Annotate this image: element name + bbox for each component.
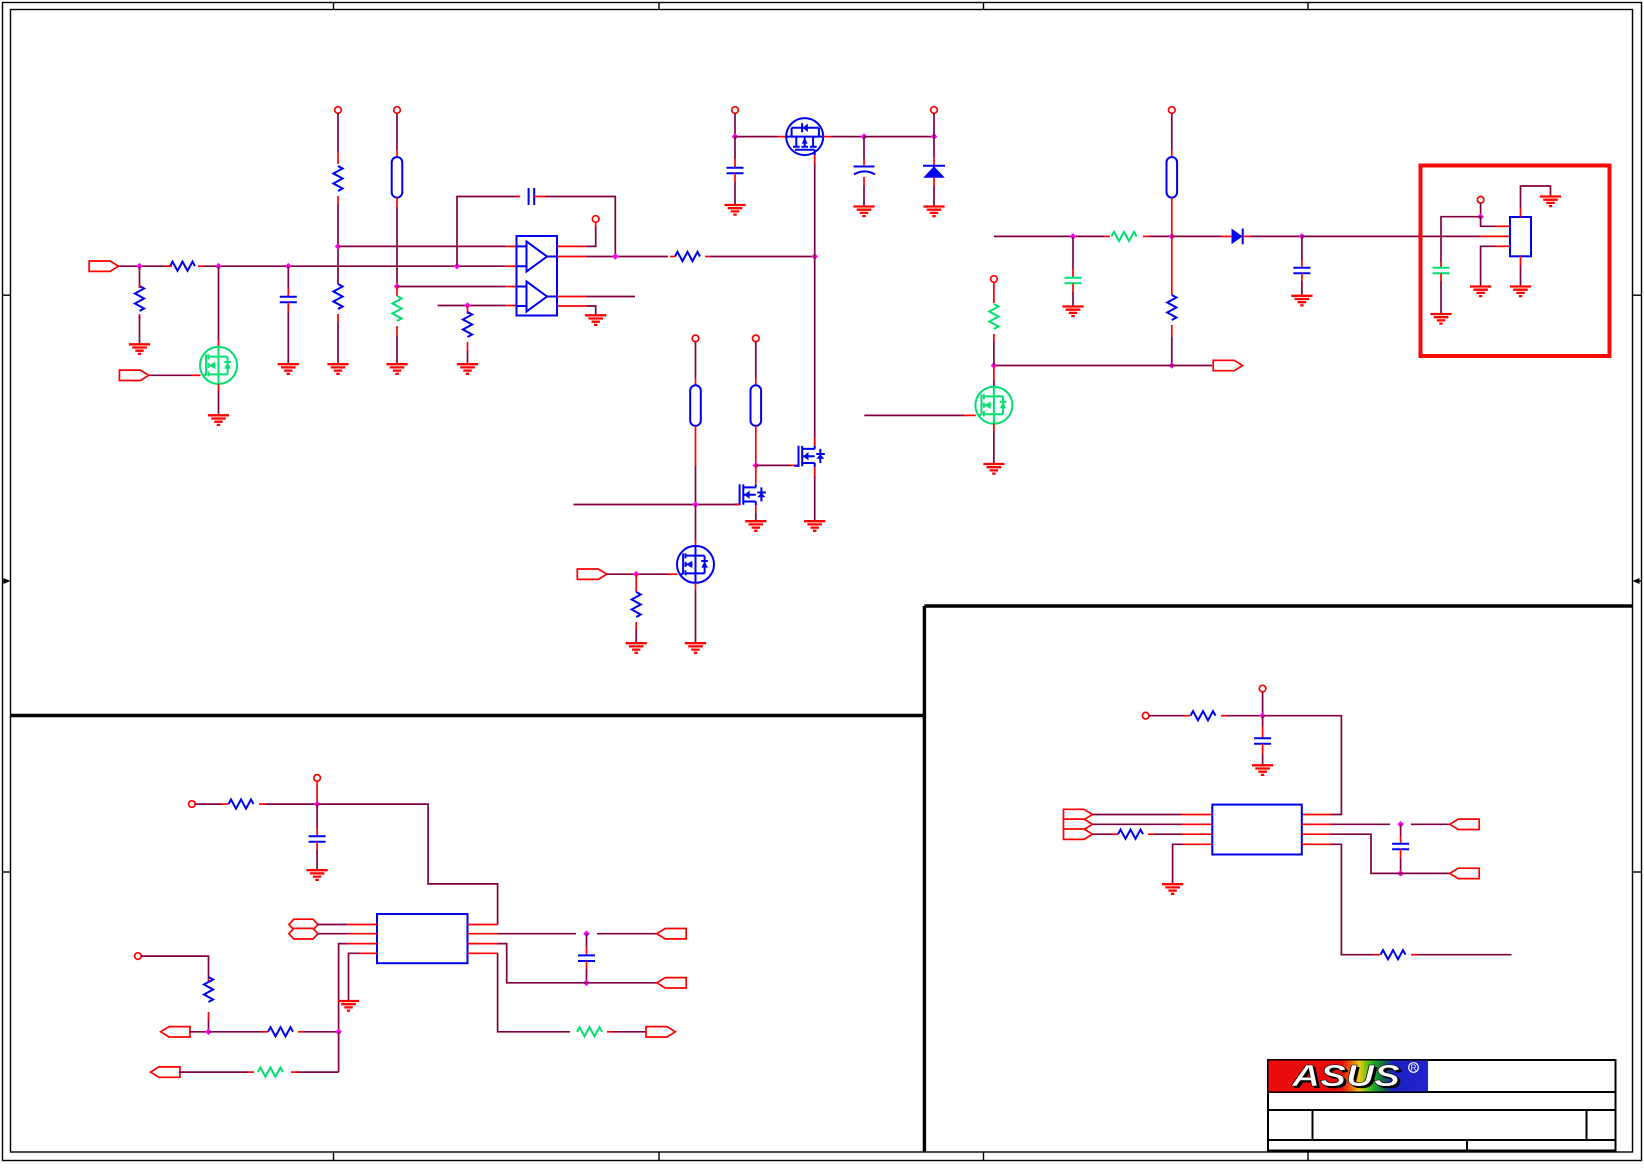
resistor R5 green [392, 296, 401, 321]
wire R2 to ground [139, 316, 141, 344]
wire B2 to U4 pin2 [1092, 823, 1182, 825]
wire T6 to L2 [695, 342, 697, 386]
inductor L2 [690, 385, 701, 426]
terminal T8 [1169, 107, 1176, 114]
IC U3 pin stubs [347, 925, 498, 954]
border centre arrow left [3, 578, 11, 584]
wire N21 to Q6 drain [993, 366, 995, 387]
transistor Q6 [975, 387, 1012, 424]
resistor R14 [204, 977, 213, 1002]
node N20 junction [1169, 362, 1176, 369]
resistor R7 [670, 252, 710, 261]
terminal T11 [189, 801, 196, 808]
wire B1 to U4 pin1 [1092, 814, 1182, 816]
wire R16 to N26 leg [291, 1071, 339, 1073]
ground G17 [1540, 197, 1561, 207]
resistor R19 [1381, 950, 1406, 959]
wire U4 pin8 red stub [1302, 814, 1331, 816]
node N17 junction [1070, 233, 1077, 240]
terminal T13 [135, 953, 142, 960]
resistor R9 green [1104, 232, 1150, 241]
wire N26 down to R16 row [338, 1032, 340, 1072]
wire U3 pin6 to N25 [498, 944, 576, 983]
node N25 junction [583, 980, 590, 987]
ground G3 [278, 364, 299, 374]
wire N6 to U1 pin5 [397, 286, 517, 288]
wire main input net [204, 265, 505, 267]
wire L2 to N13 [695, 426, 697, 505]
wire N3 to C1 [287, 266, 289, 296]
node N28 junction [1259, 712, 1266, 719]
wire R9 to N18 [1150, 235, 1172, 237]
port B3 pentagon [1064, 829, 1093, 839]
wire Q4 gate red stub [736, 504, 739, 506]
diode D2 [923, 166, 945, 178]
IC U3 [377, 914, 468, 963]
transistor Q1 [200, 347, 237, 384]
block divider bottom-left top edge [11, 714, 925, 717]
capacitor C8 [309, 836, 326, 842]
node N2 junction [215, 263, 222, 270]
resistor R15 [268, 1027, 293, 1036]
wire R7 to gate net [710, 256, 815, 258]
diode D1 [1232, 229, 1243, 245]
wire net to Q3 drain [814, 257, 816, 446]
port B2 pentagon [1064, 819, 1093, 829]
terminal T15 [1142, 712, 1149, 719]
wire L3 to N14 [755, 426, 757, 466]
wire N30 to OUT6 [1390, 872, 1450, 874]
wire R14 top red stub [208, 978, 210, 983]
terminal T12 [314, 775, 321, 782]
capacitor C4 polarized [854, 167, 876, 175]
wire N19 to U2 [1302, 235, 1510, 237]
capacitor C11 [1392, 844, 1409, 850]
wire N29 to OUT5 [1411, 823, 1450, 825]
wire C10 to ground [1262, 744, 1264, 766]
ground G2 [208, 415, 229, 425]
node N10 junction [732, 133, 739, 140]
ground G4 [327, 364, 348, 374]
capacitor C5 green [1065, 278, 1082, 284]
ground G24 [1252, 765, 1273, 775]
wire N12 to D2 [933, 137, 935, 166]
wire N28 to C10 [1262, 716, 1264, 739]
resistor R2 [135, 284, 144, 319]
highlight box [1421, 166, 1610, 357]
wire N15 down to Q5 [695, 505, 697, 547]
wire B3 to R18 [1092, 833, 1118, 835]
node N1 junction [136, 263, 143, 270]
wire T3 to U1 pin8 [586, 222, 596, 246]
ground G1 [129, 344, 150, 354]
wire U4 pin6 to N30 [1331, 834, 1390, 873]
wire T1 to R3 [337, 113, 339, 164]
wire C3 to ground [734, 173, 736, 205]
border centre arrow right [1633, 578, 1642, 584]
wire N20 to N21 [994, 365, 1172, 367]
terminal T5 [931, 107, 938, 114]
wire Q2 gate down [814, 155, 816, 256]
wire N11 to T5 node [864, 136, 934, 138]
node N4 junction [454, 263, 461, 270]
wire IN2 to Q1 gate [149, 374, 201, 376]
node N3 junction [285, 263, 292, 270]
port OUT1 [1213, 360, 1242, 370]
terminal T3 [592, 216, 599, 223]
wire L4 to N18 [1171, 198, 1173, 237]
port B1 pentagon [1064, 809, 1093, 819]
wire N11 to C4 [863, 137, 865, 168]
capacitor C10 [1254, 738, 1271, 744]
wire U1 output to R7 [586, 256, 668, 258]
ground G5 [386, 364, 407, 374]
terminal T14 [1259, 685, 1266, 692]
wire D2 to ground [933, 178, 935, 207]
wire T8 to L4 [1171, 113, 1173, 157]
node N26 junction [335, 1029, 342, 1036]
block divider bottom-right top edge [924, 604, 1632, 607]
wire IN5 to R16 [179, 1071, 254, 1073]
wire R19 left red stub [1374, 954, 1380, 956]
ground G8 [724, 205, 745, 215]
wire T12 to N23 [316, 781, 318, 804]
wire R15 to N26 [298, 1031, 339, 1033]
inductor L3 [751, 385, 762, 426]
wire main net red stub at U1 [505, 265, 517, 267]
wire T2 to L1 [396, 113, 398, 157]
wire stub to U1 pin6 [438, 305, 517, 307]
terminal T9 [991, 276, 998, 283]
capacitor C7 [1293, 268, 1310, 274]
ground G7 [585, 315, 606, 325]
wire C6 to ground [1440, 273, 1442, 314]
wire U3 pin7 to N24 [498, 933, 576, 935]
wire N6 to R5 [396, 287, 398, 297]
ground G16 [983, 464, 1004, 474]
capacitor C9 [578, 955, 595, 961]
capacitor C1 [280, 297, 297, 303]
wire A2 to U3 [318, 933, 347, 935]
IC U4 [1212, 805, 1302, 855]
node N11 junction [861, 133, 868, 140]
wire R14 to N27 [208, 1012, 210, 1032]
port A2 hexagon [289, 928, 318, 939]
port IN4 [161, 1027, 190, 1037]
wire U3 pin4 to ground [349, 953, 361, 1001]
node N9 junction [811, 253, 818, 260]
wire R17 to N28 [1221, 715, 1263, 717]
capacitor C6 green [1433, 268, 1450, 274]
wire N10 to C3 [734, 137, 736, 168]
node N19 junction [1299, 233, 1306, 240]
node N16 junction [633, 571, 640, 578]
wire T9 to R11 [993, 282, 995, 303]
wire R12 to N23 [259, 803, 317, 805]
wire Q3 drain red stub [814, 438, 816, 446]
inductor L4 [1167, 157, 1178, 198]
node N14 junction [753, 462, 760, 469]
wire N17 to C5 [1072, 236, 1074, 277]
inductor L1 [392, 157, 403, 198]
wire N20 to OUT1 [1172, 365, 1212, 367]
ground G10 [923, 207, 944, 217]
terminal T7 [753, 335, 760, 342]
wire N7 to R6 [467, 306, 469, 315]
transistor Q4 [735, 484, 766, 505]
wire N22 to C6 branch [1441, 217, 1481, 262]
wire N16 to R8 [635, 574, 637, 592]
IC U2 [1510, 217, 1531, 256]
wire Q5 source to ground [695, 583, 697, 643]
ground G25 [1162, 884, 1183, 894]
wire R5 to ground [396, 326, 398, 364]
wire U2 top pin to ground [1521, 186, 1551, 217]
node N5 junction [335, 243, 342, 250]
wire T11 to R12 [195, 803, 228, 805]
wire N22 to U2 pin1 [1481, 217, 1510, 227]
wire net VOUT horizontal [994, 235, 1104, 237]
wire Q6 source to ground [993, 424, 995, 464]
wire U4 pin1 red stub [1182, 814, 1212, 816]
node N30 junction [1397, 870, 1404, 877]
wire N5 to U1 pin3 [338, 245, 517, 247]
svg-text:ASUS: ASUS [1291, 1058, 1401, 1093]
wire R10 to N20 [1171, 325, 1173, 366]
ground G22 [307, 870, 328, 880]
wire T7 to L3 [755, 342, 757, 386]
wire Q6 gate net [864, 414, 976, 416]
wire N14 to Q3 gate [756, 464, 799, 466]
wire IN3 to Q5 gate [607, 573, 678, 575]
wire T13 to R14 [141, 956, 208, 978]
wire Q2 to N11 [823, 136, 864, 138]
wire N2 to Q1 drain [218, 266, 220, 346]
wire U4 pin4 to ground [1173, 844, 1183, 884]
ground G20 [1510, 287, 1531, 297]
transistor Q5 [677, 546, 714, 583]
resistor R1 [166, 262, 204, 271]
port OUT3 [657, 978, 686, 988]
wire R18 to U4 pin3 [1148, 833, 1182, 835]
wire T4 down to N10 [734, 113, 736, 136]
port OUT2 [657, 929, 686, 939]
wire C7 to ground [1301, 273, 1303, 296]
wire R11 to N21 [993, 334, 995, 366]
resistor R11 green [989, 304, 998, 329]
wire N23 to U3 pin8 [317, 804, 498, 924]
port IN1 [89, 261, 118, 271]
wire U3 pin5 to R13 [498, 953, 570, 1032]
terminal T2 [394, 107, 401, 114]
terminal T10 [1477, 197, 1484, 204]
resistor R4 [333, 284, 342, 309]
resistor R18 [1118, 830, 1143, 839]
wire feedback right leg [534, 197, 615, 257]
resistor R16 green [258, 1068, 283, 1077]
capacitor C3 [727, 168, 744, 174]
wire U4 pin5 to R19 [1331, 844, 1374, 954]
wire Q3 source to ground [814, 467, 816, 521]
wire C5 to ground [1072, 283, 1074, 306]
ground G9 [853, 207, 874, 217]
svg-text:R: R [1411, 1064, 1417, 1073]
resistor R6 [463, 312, 472, 337]
transistor Q2 [786, 118, 823, 155]
node N22 junction [1477, 213, 1484, 220]
node N29 junction [1397, 821, 1404, 828]
wire R4 to ground [337, 314, 339, 364]
capacitor C2 [529, 188, 535, 205]
wire D1 to N19 [1243, 235, 1302, 237]
resistor R10 [1167, 295, 1176, 320]
wire U4 pin7 to N29 [1331, 823, 1390, 825]
wire IN1 to R1 [119, 265, 171, 267]
wire R13 to OUT4 [607, 1031, 646, 1033]
wire gate net N15 [574, 504, 737, 506]
node N15 junction [692, 501, 699, 508]
wire N18 to D1 [1172, 235, 1232, 237]
wire T5 down [933, 113, 935, 136]
wire N14 to Q4 drain [755, 465, 757, 484]
wire L1 down to N6 [396, 198, 398, 287]
wire T10 to N22 [1480, 203, 1482, 217]
wire R3 to N5 [337, 196, 339, 284]
ground G6 [457, 364, 478, 374]
wire C9 to N25 [586, 961, 588, 983]
ground G11 [804, 521, 825, 531]
wire U2 pin3 to ground [1481, 246, 1510, 286]
wire U1 gnd pin [586, 306, 596, 315]
ground G21 [1291, 296, 1312, 306]
node N24 junction [583, 930, 590, 937]
wire N24 to C9 [586, 934, 588, 956]
port OUT6 [1450, 868, 1479, 878]
port OUT4 [646, 1027, 675, 1037]
port IN3 [577, 569, 606, 579]
terminal T1 [335, 107, 342, 114]
port OUT5 [1450, 819, 1479, 829]
wire C6 top red stub [1440, 262, 1442, 268]
resistor R12 [229, 800, 254, 809]
title block grid [1268, 1060, 1616, 1151]
wire feedback left leg [457, 197, 520, 267]
wire R19 to open end [1411, 954, 1512, 956]
wire N24 to OUT2 [597, 933, 657, 935]
wire N1 to R2 [139, 266, 141, 288]
wire N10 to Q2 [735, 136, 786, 138]
wire T15 to R17 [1149, 715, 1190, 717]
wire R8 to ground [635, 622, 637, 643]
node N23 junction [314, 801, 321, 808]
wire U2 bottom pin to ground [1520, 256, 1522, 286]
op-amp U1 right pin stubs [557, 246, 586, 306]
wire N23 to C8 [316, 804, 318, 836]
terminal T6 [692, 335, 699, 342]
node N18 junction [1169, 233, 1176, 240]
port IN5 [151, 1067, 180, 1077]
wire N19 to C7 [1301, 236, 1303, 267]
wire Q1 source to ground [218, 384, 220, 415]
resistor R8 [632, 592, 641, 617]
node N21 junction [991, 362, 998, 369]
ground G18 [1430, 314, 1451, 324]
wire C11 to N30 [1400, 849, 1402, 873]
node N8 junction [612, 253, 619, 260]
block divider vertical [923, 606, 926, 1152]
wire U3 pin3 to N26 [339, 944, 347, 1032]
port IN2 [119, 370, 148, 380]
ground G13 [685, 643, 706, 653]
ASUS logo [1269, 1058, 1429, 1095]
node N12 junction [931, 133, 938, 140]
op-amp U1 [517, 236, 558, 316]
wire N27 to R15 [209, 1031, 269, 1033]
wire T14 to N28 [1262, 692, 1264, 716]
ground G19 [1470, 287, 1491, 297]
wire U1 out2 stub [586, 296, 635, 298]
port A1 hexagon [289, 919, 318, 930]
wire C1 to ground [287, 303, 289, 365]
transistor Q3 [794, 446, 825, 467]
wire N25 to OUT3 [576, 982, 657, 984]
wire A1 to U3 [318, 924, 347, 926]
ground G12 [745, 521, 766, 531]
wire C8 to ground [316, 842, 318, 870]
wire IN4 to N27 [189, 1031, 209, 1033]
wire R6 to ground [467, 342, 469, 364]
resistor R13 green [577, 1027, 602, 1036]
node N27 junction [205, 1029, 212, 1036]
resistor R3 [333, 166, 342, 191]
ground G15 [1062, 307, 1083, 317]
wire C2 left red stub [516, 196, 520, 198]
wire Q4 source to ground [755, 505, 757, 521]
resistor R17 [1191, 711, 1216, 720]
wire C4 to ground [863, 177, 865, 207]
terminal T4 [732, 107, 739, 114]
node N6 junction [394, 283, 401, 290]
node N7 junction [464, 302, 471, 309]
IC U4 pin stubs [1182, 824, 1331, 844]
wire N28 to U4 pin8 [1263, 716, 1342, 815]
ground G14 [626, 643, 647, 653]
wire N29 to C11 [1400, 824, 1402, 843]
ground G23 [338, 1001, 359, 1011]
wire N18 to R10 [1171, 236, 1173, 295]
